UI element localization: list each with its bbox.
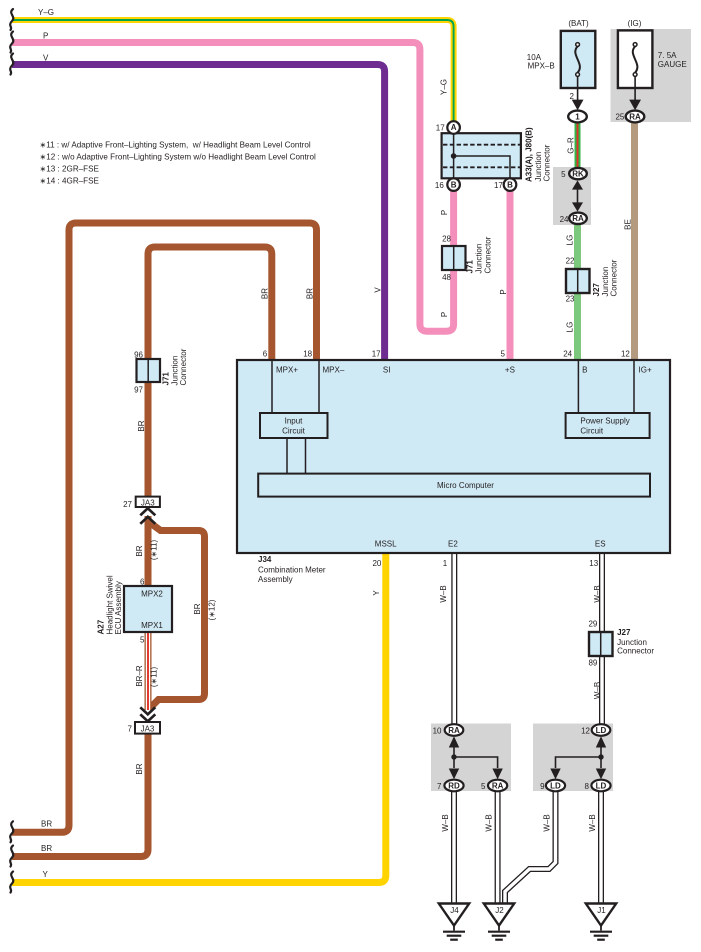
svg-text:J1: J1 <box>597 906 606 915</box>
svg-text:12: 12 <box>621 350 630 359</box>
svg-text:12: 12 <box>581 726 590 735</box>
svg-text:W–B: W–B <box>439 585 448 602</box>
svg-text:P: P <box>43 31 48 40</box>
svg-text:RD: RD <box>448 781 460 790</box>
svg-text:Y–G: Y–G <box>38 8 54 17</box>
svg-text:P: P <box>499 289 508 294</box>
svg-text:B: B <box>582 366 587 375</box>
svg-text:A33(A), J80(B): A33(A), J80(B) <box>525 127 534 182</box>
svg-text:(IG): (IG) <box>628 19 642 28</box>
svg-text:MPX1: MPX1 <box>141 621 163 630</box>
svg-text:28: 28 <box>442 235 451 244</box>
svg-text:23: 23 <box>566 295 575 304</box>
svg-text:Connector: Connector <box>610 259 619 296</box>
svg-text:MSSL: MSSL <box>375 540 397 549</box>
svg-text:(∗11): (∗11) <box>150 540 159 561</box>
svg-text:BE: BE <box>624 219 633 230</box>
svg-text:A27: A27 <box>97 619 106 634</box>
svg-text:P: P <box>440 312 449 317</box>
svg-text:E2: E2 <box>448 540 458 549</box>
svg-text:W–B: W–B <box>485 814 494 831</box>
svg-text:13: 13 <box>589 559 598 568</box>
svg-text:BR: BR <box>306 288 315 299</box>
svg-text:BR: BR <box>261 288 270 299</box>
svg-text:89: 89 <box>588 659 597 668</box>
svg-text:Connector: Connector <box>179 348 188 385</box>
svg-text:LD: LD <box>596 781 607 790</box>
svg-text:J71: J71 <box>466 260 475 274</box>
svg-text:W–B: W–B <box>593 682 602 699</box>
svg-text:BR: BR <box>193 603 202 614</box>
svg-text:∗14 : 4GR–FSE: ∗14 : 4GR–FSE <box>40 177 100 186</box>
svg-text:LD: LD <box>550 781 561 790</box>
svg-text:5: 5 <box>500 350 505 359</box>
svg-text:Input: Input <box>285 417 304 426</box>
svg-text:Junction: Junction <box>475 244 484 274</box>
svg-text:(BAT): (BAT) <box>568 19 589 28</box>
svg-text:7: 7 <box>437 782 442 791</box>
svg-text:ES: ES <box>595 540 606 549</box>
svg-text:W–B: W–B <box>588 814 597 831</box>
svg-text:5: 5 <box>481 782 486 791</box>
svg-text:17: 17 <box>436 124 445 133</box>
svg-text:GAUGE: GAUGE <box>658 60 687 69</box>
svg-text:G–R: G–R <box>567 137 576 154</box>
svg-text:48: 48 <box>442 273 451 282</box>
svg-text:BR: BR <box>137 420 146 431</box>
svg-text:LD: LD <box>596 726 607 735</box>
svg-text:8: 8 <box>584 782 589 791</box>
svg-text:RK: RK <box>572 169 584 178</box>
svg-text:W–B: W–B <box>543 814 552 831</box>
svg-text:22: 22 <box>566 257 575 266</box>
svg-text:∗12 : w/o Adaptive Front–Light: ∗12 : w/o Adaptive Front–Lighting System… <box>40 153 316 162</box>
svg-text:IG+: IG+ <box>639 366 652 375</box>
svg-text:LG: LG <box>566 235 575 246</box>
svg-text:Combination Meter: Combination Meter <box>258 565 326 574</box>
svg-text:97: 97 <box>134 386 143 395</box>
svg-text:25: 25 <box>615 113 624 122</box>
svg-text:7. 5A: 7. 5A <box>658 51 677 60</box>
svg-text:BR: BR <box>41 820 52 829</box>
svg-text:6: 6 <box>263 350 268 359</box>
svg-text:W–B: W–B <box>593 585 602 602</box>
svg-text:24: 24 <box>560 215 569 224</box>
svg-text:∗13 : 2GR–FSE: ∗13 : 2GR–FSE <box>40 165 100 174</box>
svg-text:Y: Y <box>43 870 49 879</box>
svg-text:RA: RA <box>629 112 641 121</box>
svg-text:BR: BR <box>41 844 52 853</box>
svg-text:(∗12): (∗12) <box>208 599 217 620</box>
svg-text:J2: J2 <box>495 906 504 915</box>
svg-text:5: 5 <box>140 636 145 645</box>
svg-text:J71: J71 <box>162 372 171 386</box>
svg-text:ECU Assembly: ECU Assembly <box>114 581 123 634</box>
svg-text:Y–G: Y–G <box>440 79 449 95</box>
svg-text:+S: +S <box>505 366 515 375</box>
svg-text:6: 6 <box>140 578 145 587</box>
svg-text:7: 7 <box>128 725 133 734</box>
svg-text:9: 9 <box>540 782 545 791</box>
svg-text:10: 10 <box>433 726 442 735</box>
svg-text:MPX–B: MPX–B <box>528 62 555 71</box>
svg-text:(∗11): (∗11) <box>150 667 159 688</box>
svg-text:BR: BR <box>135 545 144 556</box>
svg-text:J27: J27 <box>617 628 631 637</box>
svg-text:MPX+: MPX+ <box>276 365 298 374</box>
svg-text:17: 17 <box>372 350 381 359</box>
svg-text:B: B <box>507 180 513 189</box>
svg-text:27: 27 <box>123 500 132 509</box>
svg-text:Y: Y <box>372 590 381 596</box>
svg-text:24: 24 <box>563 350 572 359</box>
svg-text:96: 96 <box>134 351 143 360</box>
svg-text:20: 20 <box>372 559 381 568</box>
svg-text:RA: RA <box>492 781 504 790</box>
svg-text:Connector: Connector <box>543 144 552 181</box>
svg-text:16: 16 <box>435 181 444 190</box>
svg-text:RA: RA <box>572 214 584 223</box>
svg-text:MPX2: MPX2 <box>141 590 163 599</box>
svg-text:JA3: JA3 <box>141 724 155 733</box>
svg-text:1: 1 <box>575 112 580 121</box>
svg-text:5: 5 <box>561 170 566 179</box>
svg-text:J27: J27 <box>592 283 601 297</box>
svg-text:Connector: Connector <box>484 236 493 273</box>
svg-text:Connector: Connector <box>617 647 654 656</box>
svg-text:A: A <box>451 123 457 132</box>
svg-text:B: B <box>451 180 457 189</box>
svg-text:Micro Computer: Micro Computer <box>437 481 494 490</box>
svg-text:Circuit: Circuit <box>282 427 305 436</box>
svg-text:V: V <box>374 287 383 293</box>
svg-text:Circuit: Circuit <box>580 427 603 436</box>
svg-text:BR–R: BR–R <box>135 665 144 687</box>
svg-text:LG: LG <box>566 322 575 333</box>
svg-text:J4: J4 <box>450 906 459 915</box>
svg-text:Assembly: Assembly <box>258 575 293 584</box>
svg-text:P: P <box>440 210 449 215</box>
svg-text:17: 17 <box>494 181 503 190</box>
svg-text:∗11 : w/ Adaptive Front–Lighti: ∗11 : w/ Adaptive Front–Lighting System,… <box>40 141 311 150</box>
svg-text:RA: RA <box>448 726 460 735</box>
svg-text:Power Supply: Power Supply <box>580 417 629 426</box>
svg-text:JA3: JA3 <box>141 498 155 507</box>
svg-text:1: 1 <box>443 559 448 568</box>
svg-text:J34: J34 <box>258 555 272 564</box>
svg-text:MPX–: MPX– <box>323 365 345 374</box>
svg-text:V: V <box>43 53 49 62</box>
svg-text:SI: SI <box>383 365 391 374</box>
svg-text:18: 18 <box>303 350 312 359</box>
svg-text:29: 29 <box>588 620 597 629</box>
svg-text:2: 2 <box>570 92 575 101</box>
svg-text:BR: BR <box>135 763 144 774</box>
svg-text:W–B: W–B <box>441 814 450 831</box>
